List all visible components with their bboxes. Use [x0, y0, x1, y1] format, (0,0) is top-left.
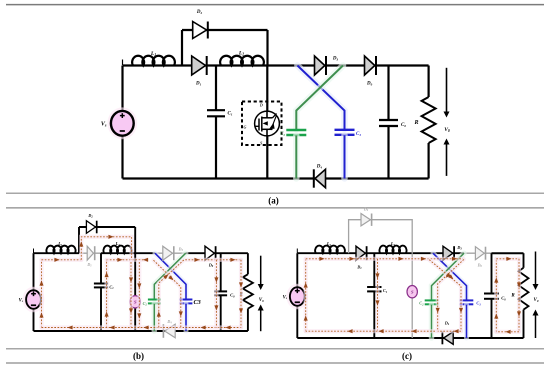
(a) D2 branch right leg / node3 [266, 30, 268, 66]
svg-text:R: R [511, 294, 515, 299]
(b) green wire C2 to bottom [152, 304, 158, 331]
voltage source Vs (c) [283, 284, 309, 310]
switch S (c) [407, 286, 417, 298]
svg-text:C2: C2 [419, 301, 424, 307]
(c) current down C1 [375, 259, 379, 331]
(b) R branch upper [247, 253, 249, 274]
(b) D2 branch top wire [79, 226, 135, 228]
figure bottom rule [6, 362, 544, 364]
svg-text:(b): (b) [133, 351, 144, 361]
svg-text:C3: C3 [476, 301, 481, 307]
output arrow up (c) [533, 310, 539, 339]
svg-text:G: G [244, 124, 247, 129]
inductor L1 (a) [132, 51, 175, 66]
(b) current loop top corridor mid [107, 258, 149, 262]
diode D1 (c) [356, 246, 367, 270]
(c) inactive switch branch upper [411, 253, 413, 285]
(c) load loop top wire [492, 252, 524, 254]
(b) D2 branch right leg [134, 227, 136, 253]
svg-text:(c): (c) [402, 351, 412, 361]
(b) current down switch left [129, 262, 133, 328]
svg-text:C1: C1 [109, 284, 114, 290]
rule above caption (a) [6, 192, 544, 194]
svg-text:D0: D0 [208, 263, 214, 269]
(a) Co branch lower [387, 126, 389, 178]
switch S (b) [130, 296, 140, 308]
diode D4 (c) [442, 321, 453, 345]
(b) left rail lower [33, 309, 35, 331]
(b) current down Co [214, 260, 218, 328]
(b) green wire node B to C2 [154, 253, 185, 299]
diode D3 (b) inactive [163, 246, 184, 260]
(a) left rail lower segment [121, 136, 123, 179]
(c) current along green branch [436, 259, 464, 331]
(b) C1 branch lower [100, 288, 102, 331]
(c) load loop left lower [491, 299, 493, 338]
(b) current via C3 branch [154, 260, 183, 327]
svg-text:Vs: Vs [101, 121, 107, 127]
(c) C1 branch lower [373, 292, 375, 338]
capacitor C3 (b) [180, 300, 193, 304]
diode D3 (c) [443, 245, 462, 260]
svg-text:(a): (a) [268, 196, 279, 206]
inductor L2 (c) [379, 241, 406, 253]
resistor R (c) [511, 268, 528, 310]
(c) C1 branch upper [373, 253, 375, 286]
svg-text:C1: C1 [228, 112, 233, 117]
(a) MOSFET source wire [266, 136, 268, 179]
(c) left rail lower [296, 306, 298, 338]
output arrow up (b) [258, 305, 264, 332]
(c) current top corridor [306, 257, 463, 261]
(b) current down R side [239, 260, 243, 328]
capacitor C1 (a) [207, 110, 233, 116]
(a) input tick mark [122, 60, 124, 66]
(a) blue wire C3 to bottom [341, 135, 348, 178]
inductor L2 (a) [220, 51, 264, 66]
svg-text:D0: D0 [477, 263, 483, 269]
capacitor C1 (b) [94, 284, 114, 291]
MOSFET S (a) [255, 111, 280, 136]
(c) current D4 segment [438, 329, 461, 333]
(b) Co branch lower [220, 296, 222, 331]
svg-text:D3: D3 [456, 245, 462, 251]
svg-text:C3: C3 [356, 132, 361, 137]
(b) node1 riser to D2 branch [78, 227, 80, 253]
svg-text:D1: D1 [356, 264, 362, 270]
(c) current along blue branch [429, 260, 463, 332]
(c) load loop left upper / Co lead [491, 253, 493, 293]
(a) left rail upper segment [121, 66, 123, 111]
capacitor C2 (c) [419, 300, 438, 306]
(b) bottom wire [34, 330, 248, 332]
inductor L1 (b) [46, 241, 75, 253]
(c) inactive wire node B to load [464, 252, 492, 254]
capacitor Co (b) [214, 291, 235, 298]
diode D0 (c) inactive [475, 247, 485, 269]
svg-text:D: D [259, 103, 263, 108]
diode D4 (b) inactive [163, 319, 175, 338]
(b) top wire left of D1 [34, 252, 80, 254]
(c) inactive D2 branch [349, 220, 413, 254]
(b) current loop left rail [39, 260, 43, 328]
svg-text:C0: C0 [501, 296, 506, 302]
rule below caption (a) [6, 207, 544, 209]
(c) green wire node B to C2 [432, 253, 465, 300]
svg-text:D4: D4 [444, 321, 450, 327]
(a) R branch upper [428, 66, 430, 98]
output arrow up (a) [444, 139, 450, 176]
(b) Co branch upper [220, 253, 222, 291]
diode D3 (a) [315, 56, 339, 75]
svg-text:D1: D1 [86, 262, 92, 268]
svg-text:C2: C2 [143, 301, 148, 307]
svg-text:R: R [413, 120, 418, 126]
(b) left rail upper [33, 253, 35, 290]
diode D2 (b) [86, 213, 96, 234]
diode D4 (a) [314, 165, 326, 188]
(a) top wire [123, 64, 429, 66]
(c) input tick mark [296, 249, 298, 254]
(b) blue wire node A to C3 [155, 253, 186, 299]
(b) current loop D2 detour [79, 235, 131, 260]
svg-text:C3: C3 [194, 299, 201, 306]
(b) switch branch lower [134, 308, 136, 331]
capacitor C3 (a) [335, 130, 362, 137]
svg-text:L1: L1 [57, 241, 63, 247]
svg-text:C1: C1 [383, 288, 388, 294]
(c) left rail upper [296, 253, 298, 287]
capacitor Co (a) [379, 120, 406, 128]
diode D2 (c) inactive [361, 207, 372, 226]
svg-text:L2: L2 [115, 241, 121, 247]
svg-text:D3: D3 [332, 57, 339, 62]
(b) top wire C1 to node A [101, 252, 155, 254]
diode D1 (b) inactive [86, 246, 94, 267]
(b) current down switch right [137, 262, 141, 328]
(b) R branch lower [247, 309, 249, 331]
rule above captions (b)(c) [6, 348, 544, 350]
(a) C1 branch upper [215, 66, 217, 110]
(a) blue wire node A to C3 [297, 66, 344, 130]
figure top rule [6, 4, 544, 6]
output arrow down (b) [258, 256, 264, 290]
(c) top wire [297, 252, 464, 254]
svg-text:C0: C0 [401, 123, 406, 128]
diode D2 (a) [193, 10, 208, 39]
(b) top wire node B to R corner [186, 252, 248, 254]
(c) current bottom corridor [306, 329, 435, 333]
(b) switch branch upper [134, 253, 136, 296]
(c) load loop current right down [517, 259, 521, 332]
svg-text:L2: L2 [390, 241, 396, 247]
(c) load loop current top [496, 257, 519, 261]
svg-text:V0: V0 [534, 298, 539, 303]
diode D1 (a) [192, 56, 207, 87]
(b) inactive wire through D3 [155, 252, 186, 254]
(b) current bottom corridor [42, 325, 242, 329]
(c) bottom wire [297, 337, 491, 339]
(a) Co branch upper [387, 66, 389, 120]
capacitor Co (c) [484, 294, 506, 302]
svg-text:C2: C2 [280, 132, 285, 137]
resistor R (a) [413, 97, 435, 143]
(c) load loop current left rail up [494, 259, 498, 332]
inductor L2 (b) [103, 241, 131, 253]
(a) green wire node B to C2 [296, 66, 343, 130]
svg-text:V0: V0 [444, 127, 450, 133]
svg-text:D2: D2 [196, 10, 203, 15]
(b) current loop top corridor left [42, 258, 82, 262]
(a) D2 branch top wire [182, 29, 268, 31]
(c) green wire C2 to bottom [429, 305, 435, 338]
(b) inactive wire through D1 [79, 252, 101, 254]
(a) green wire C2 to bottom [293, 135, 300, 178]
svg-text:V0: V0 [259, 298, 264, 303]
(b) current through C1 riser [105, 260, 109, 328]
(c) inactive switch branch lower [411, 298, 413, 338]
(c) load loop bottom wire [492, 337, 524, 339]
(b) current into load top [216, 258, 241, 262]
svg-text:D4: D4 [166, 319, 172, 325]
(c) current left rail [304, 259, 308, 331]
voltage source Vs (b) [19, 287, 45, 313]
(b) input tick mark [33, 249, 35, 254]
svg-text:L1: L1 [326, 241, 332, 247]
svg-text:L1: L1 [150, 51, 156, 57]
capacitor C2 (a) [280, 130, 306, 137]
svg-text:D2: D2 [87, 213, 93, 219]
(a) C1 branch lower [215, 117, 217, 179]
(c) load loop current bottom [496, 330, 519, 334]
svg-text:D3: D3 [178, 246, 184, 252]
inductor L1 (c) [315, 241, 345, 253]
capacitor C2 (b) [143, 300, 161, 307]
svg-text:D1: D1 [195, 82, 202, 87]
(c) load R branch upper [523, 253, 525, 268]
svg-text:C0: C0 [230, 293, 235, 299]
resistor R (b) [240, 274, 253, 308]
output arrow down (a) [444, 68, 450, 118]
(a) node1 riser to D2 branch [181, 30, 183, 66]
voltage source Vs (a) [101, 107, 137, 139]
capacitor C1 (c) [367, 287, 388, 294]
(b) blue wire C3 to bottom [184, 304, 189, 331]
(c) blue wire node A to C3 [433, 253, 467, 300]
diode D0 (a) [365, 56, 377, 87]
svg-text:D4: D4 [316, 165, 323, 170]
(a) bottom wire [123, 177, 429, 179]
(c) blue wire C3 to bottom [464, 305, 469, 338]
(a) MOSFET drain wire [266, 66, 268, 112]
output arrow down (c) [533, 252, 539, 291]
svg-text:D0: D0 [366, 82, 373, 87]
switch S dashed enclosure (a) [242, 102, 282, 146]
(b) current via C2 branch [157, 258, 217, 328]
(c) load R branch lower [523, 310, 525, 338]
(a) R branch lower [428, 143, 430, 179]
capacitor C3 (c) [460, 300, 481, 306]
diode D0 (b) [205, 246, 216, 268]
(b) C1 branch upper [100, 253, 102, 283]
svg-text:L2: L2 [238, 51, 244, 57]
